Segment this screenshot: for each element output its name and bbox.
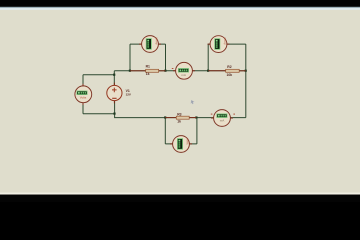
wire [113, 75, 115, 85]
wire [165, 44, 167, 71]
ammeter (middle, in series) [172, 62, 193, 79]
junction [164, 70, 166, 72]
wire [208, 43, 246, 45]
wire [115, 114, 166, 118]
wire [83, 113, 115, 115]
ammeter (top left, over R1) [142, 36, 159, 53]
wire [165, 117, 246, 119]
svg-text:Amps: Amps [154, 37, 158, 45]
voltmeter (left, across source) [75, 86, 92, 103]
wire [83, 74, 114, 76]
wire [82, 75, 84, 87]
junction [113, 113, 115, 115]
svg-text:1k: 1k [177, 119, 181, 123]
wire [130, 43, 166, 45]
svg-text:Amps: Amps [223, 37, 227, 45]
junction [113, 74, 115, 76]
junction [164, 116, 166, 118]
junction [207, 70, 209, 72]
wire [207, 44, 209, 71]
junction [129, 70, 131, 72]
wire [165, 143, 197, 145]
mouse cursor [191, 100, 195, 104]
svg-text:mA: mA [181, 73, 186, 77]
ammeter (bottom right, in series with R3) [211, 110, 235, 127]
svg-text:Volts: Volts [80, 95, 87, 99]
svg-text:1k: 1k [146, 72, 150, 76]
resistor R2 [208, 65, 246, 77]
svg-text:R3: R3 [177, 113, 181, 117]
resistor R1 [130, 65, 166, 76]
wire [113, 71, 115, 75]
meter pin stubs [83, 44, 233, 144]
wire [114, 101, 116, 114]
svg-text:mA: mA [220, 119, 225, 123]
wire [114, 70, 246, 72]
svg-text:Volts: Volts [185, 138, 189, 145]
svg-text:R1: R1 [146, 65, 150, 69]
junction [195, 116, 197, 118]
junction [245, 70, 247, 72]
voltmeter (bottom, across R3) [173, 136, 190, 153]
wire [129, 44, 131, 71]
wire [196, 118, 198, 144]
wire [164, 118, 166, 144]
wire [245, 44, 247, 118]
wire [82, 103, 84, 114]
ammeter (top right, over R2) [210, 36, 227, 53]
svg-text:R2: R2 [227, 65, 231, 69]
battery V1 [107, 85, 131, 100]
svg-text:10k: 10k [227, 73, 233, 77]
resistor R3 [165, 113, 196, 124]
svg-text:12V: 12V [126, 93, 131, 97]
